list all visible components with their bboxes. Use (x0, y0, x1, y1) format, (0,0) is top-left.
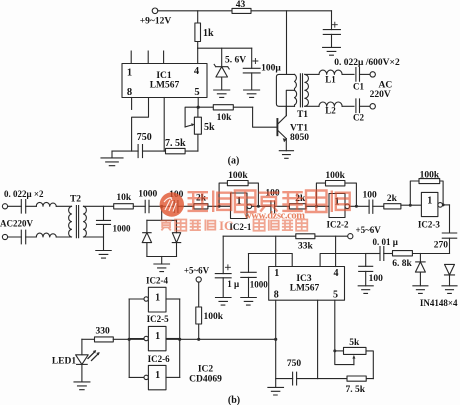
node pin5/5k junction (333, 349, 336, 352)
resistor 7.5k (166, 148, 186, 153)
svg-text:+9~12V: +9~12V (140, 16, 172, 26)
capacitor 100u (243, 48, 260, 90)
wire inverter input bus to pin8 (129, 338, 276, 340)
LED1 (76, 339, 100, 382)
svg-text:10k: 10k (116, 193, 132, 203)
wire zener/100u rail (198, 47, 252, 49)
svg-text:IN4148×4: IN4148×4 (420, 298, 458, 308)
svg-text:8: 8 (274, 289, 279, 300)
resistor 7.5k (b) (347, 376, 366, 381)
inverter IC2-1 (231, 193, 271, 219)
potentiometer 5k (185, 107, 201, 151)
diode clamp right (IN4148) (445, 264, 455, 285)
inverter IC2-6 (129, 365, 180, 389)
svg-text:1000: 1000 (138, 189, 157, 199)
capacitor C1 (356, 68, 370, 82)
ground under left clamp diode (413, 286, 428, 294)
transistor VT1 8050 (277, 106, 287, 150)
wire IC1 top stubs pins 2,3 (131, 51, 163, 64)
node AC220V terminal top (b) (2, 204, 7, 209)
svg-text:100μ: 100μ (261, 63, 281, 73)
capacitor 0.022 top (21, 200, 25, 214)
svg-text:IC2-5: IC2-5 (147, 314, 169, 324)
svg-text:AC220V: AC220V (0, 218, 33, 228)
svg-text:IC2: IC2 (198, 364, 214, 374)
watermark logo circle (160, 192, 184, 216)
wire IC1 pin7 to ground rail (132, 98, 149, 152)
capacitor 1000 shunt (97, 206, 111, 250)
wire IC3 pin1 (275, 236, 277, 266)
svg-text:5k: 5k (204, 122, 215, 133)
svg-text:LM567: LM567 (150, 80, 180, 90)
svg-text:7. 5k: 7. 5k (346, 385, 366, 395)
svg-text:LED1: LED1 (52, 356, 77, 366)
node AC220V terminal bottom (b) (2, 234, 7, 239)
zener diode 5.6V (214, 48, 229, 90)
svg-text:43: 43 (236, 0, 246, 10)
wire inverter right bus (179, 299, 181, 377)
wire input top (b) (8, 205, 72, 207)
wire IC1 pin4 to 1k (197, 48, 199, 63)
wire IC3 pin4 (335, 236, 337, 266)
node limiter junction (160, 205, 163, 208)
svg-text:8050: 8050 (290, 133, 309, 143)
svg-text:IC2-3: IC2-3 (418, 219, 440, 229)
inverter IC2-3 (421, 192, 449, 216)
ground under LED1 (74, 382, 90, 390)
resistor 43 (232, 8, 251, 13)
node bus junction dots (128, 338, 131, 341)
svg-text:2k: 2k (387, 194, 398, 204)
node AC terminal bottom (370, 104, 375, 109)
ground under pin8 column (268, 387, 284, 395)
diode clamp left (IN4148) (415, 254, 425, 286)
diode limiter pair (142, 206, 181, 264)
resistor 2k (stage3) (384, 204, 422, 209)
svg-text:+5~6V: +5~6V (184, 265, 210, 275)
resistor 100k feedback IC2-1 (218, 181, 260, 208)
wire diode clamp node (412, 253, 449, 255)
capacitor 1u electrolytic (215, 236, 231, 297)
node AC terminal top (370, 72, 375, 77)
svg-text:6. 8k: 6. 8k (392, 259, 412, 269)
capacitor C2 (356, 99, 370, 113)
svg-text:1: 1 (274, 268, 279, 279)
svg-text:1: 1 (155, 331, 160, 342)
potentiometer 5k (b) (335, 347, 374, 378)
svg-text:T1: T1 (297, 110, 308, 120)
svg-text:1000: 1000 (113, 224, 132, 234)
wire inverter left bus (128, 299, 130, 377)
svg-text:C2: C2 (353, 113, 364, 123)
node +9~12V terminal (152, 8, 158, 14)
transformer T1 (276, 11, 308, 116)
inverter IC2-4 (129, 287, 180, 312)
watermark text big (188, 191, 350, 213)
svg-text:10k: 10k (217, 113, 233, 123)
svg-text:0. 01 μ: 0. 01 μ (373, 237, 398, 247)
svg-text:0. 022μ ×2: 0. 022μ ×2 (4, 189, 44, 199)
inverter IC2-5 (129, 326, 180, 350)
ground under 1000 (96, 251, 111, 259)
svg-text:5: 5 (194, 87, 199, 98)
svg-text:0. 022μ /600V×2: 0. 022μ /600V×2 (334, 58, 400, 68)
svg-text:C1: C1 (353, 81, 364, 91)
svg-text:330: 330 (95, 327, 110, 337)
svg-text:(a): (a) (228, 155, 240, 166)
ground under 100u (244, 90, 260, 97)
svg-text:750: 750 (287, 359, 302, 369)
ground under 1000 loop (241, 298, 256, 306)
capacitor 0.01u (366, 247, 393, 261)
inductor L1 (305, 70, 354, 74)
capacitor 100 shunt (IC3) (359, 254, 373, 286)
inductor input filter bottom (36, 233, 56, 237)
wire top rail (a) (158, 10, 332, 12)
resistor 10k (b) (114, 204, 146, 209)
wire node to 100 cap (162, 205, 175, 207)
svg-text:1: 1 (127, 67, 132, 78)
capacitor 0.022 bottom (21, 230, 25, 244)
ground under 1u (216, 298, 232, 306)
svg-text:270: 270 (434, 241, 449, 251)
svg-text:L2: L2 (325, 105, 336, 115)
capacitor 270 (442, 205, 456, 254)
capacitor 100 series (stage2) (271, 201, 290, 213)
wire T2 secondary bottom to ground (84, 236, 104, 238)
svg-text:CD4069: CD4069 (189, 374, 222, 384)
transformer T2 (69, 206, 87, 238)
svg-text:IC2-4: IC2-4 (146, 276, 168, 286)
wire (a) bottom RC rail (112, 150, 198, 152)
capacitor top-right electrolytic (323, 11, 340, 48)
svg-text:IC2-2: IC2-2 (327, 219, 349, 229)
node pin5 junction (197, 106, 200, 109)
svg-text:4: 4 (334, 268, 339, 279)
ground left of 750 (101, 151, 123, 166)
wire IC1 pin8 stub (131, 98, 133, 110)
svg-text:LM567: LM567 (290, 284, 320, 294)
resistor 100k feedback IC2-2 (315, 181, 358, 208)
watermark text slogan (161, 220, 308, 231)
svg-text:(b): (b) (228, 395, 240, 405)
svg-text:1000: 1000 (250, 280, 268, 290)
wire 10k to base (253, 107, 277, 127)
svg-text:220V: 220V (370, 90, 391, 100)
svg-text:100k: 100k (228, 171, 248, 181)
svg-text:IC2-6: IC2-6 (148, 354, 170, 364)
ground under right clamp diode (442, 286, 457, 294)
capacitor 1000 series (145, 200, 162, 212)
svg-text:IC: IC (219, 218, 233, 233)
inductor L2 (305, 102, 354, 106)
wire IC1 pin5 down (197, 98, 199, 108)
wire IC1 pin6 down (163, 98, 165, 152)
svg-text:1 μ: 1 μ (227, 279, 239, 289)
svg-text:100k: 100k (325, 171, 345, 181)
svg-text:8: 8 (127, 87, 132, 98)
capacitor 100 series (stage3) (369, 200, 384, 213)
svg-text:L1: L1 (325, 74, 336, 84)
resistor 2k (stage2) (289, 204, 329, 209)
ground under limiter (154, 264, 170, 272)
wire IC3 pin8 column (275, 300, 277, 387)
resistor 100k pull-up (196, 282, 202, 339)
svg-text:5k: 5k (349, 338, 360, 348)
resistor 33k (296, 234, 315, 239)
ground under 100 shunt (358, 286, 373, 294)
wire bottom RC rail (b) (276, 378, 374, 380)
svg-text:1k: 1k (203, 28, 214, 39)
wire input bottom (b) (8, 236, 72, 238)
wire IC3 pin3 input (320, 254, 366, 267)
svg-text:1: 1 (427, 195, 432, 206)
svg-text:5. 6V: 5. 6V (225, 56, 246, 66)
ground under VT1 (279, 151, 293, 159)
resistor 1k (195, 11, 201, 48)
svg-text:7. 5k: 7. 5k (165, 138, 186, 149)
svg-text:100k: 100k (204, 312, 224, 322)
svg-text:+5~6V: +5~6V (356, 225, 382, 235)
resistor 10k (198, 105, 252, 110)
svg-text:100k: 100k (420, 171, 440, 181)
resistor 330 (82, 337, 129, 342)
ground under zener (214, 90, 230, 97)
op-amp IC3 LM567 box (269, 267, 345, 301)
resistor 6.8k (393, 251, 413, 256)
wire IC3 pin6 column (317, 300, 319, 378)
wire supply rail (b) (223, 235, 348, 237)
node +5~6V terminal (b left) (196, 277, 201, 282)
wire T2 secondary top (84, 205, 114, 207)
ground under top-right capacitor (323, 47, 341, 55)
capacitor 1000 loop filter (241, 254, 256, 298)
svg-text:1: 1 (155, 370, 160, 381)
svg-text:4: 4 (194, 66, 200, 77)
capacitor 100 series (stage1) (174, 201, 194, 213)
capacitor 750 (b) (293, 372, 297, 385)
wire IC3 pin5 column (335, 300, 354, 364)
svg-text:100: 100 (362, 190, 377, 200)
svg-text:33k: 33k (298, 241, 314, 251)
svg-text:T2: T2 (70, 194, 81, 204)
resistor 100k feedback IC2-3 (409, 179, 445, 207)
capacitor 750 (138, 145, 142, 158)
svg-text:100: 100 (369, 274, 384, 284)
inverter IC2-2 (329, 194, 369, 218)
inductor input filter top (36, 202, 56, 206)
svg-text:IC3: IC3 (296, 274, 312, 284)
svg-text:1: 1 (155, 292, 160, 303)
node +5~6V terminal (b right) (348, 234, 353, 239)
svg-text:5: 5 (333, 289, 338, 300)
op-amp IC1 LM567 box (122, 64, 207, 98)
wire 1000 to IC3 pin2 (249, 254, 293, 267)
svg-text:750: 750 (137, 132, 152, 143)
resistor 2k (stage1) (194, 204, 231, 209)
